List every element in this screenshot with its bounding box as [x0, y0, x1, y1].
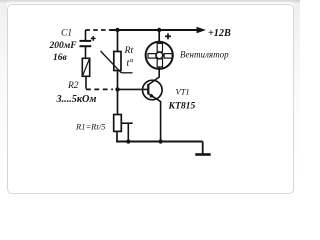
svg-text:C1: C1: [61, 29, 72, 39]
svg-text:Rt: Rt: [124, 45, 134, 56]
svg-text:+12В: +12В: [208, 28, 231, 39]
svg-text:КТ815: КТ815: [168, 101, 196, 112]
svg-text:Вентилятор: Вентилятор: [180, 49, 229, 59]
svg-text:R1=Rt/5: R1=Rt/5: [75, 121, 105, 131]
svg-text:16в: 16в: [53, 53, 68, 63]
svg-text:R2: R2: [67, 81, 79, 91]
svg-text:200мF: 200мF: [49, 41, 78, 51]
svg-text:VT1: VT1: [176, 86, 190, 96]
svg-text:t°: t°: [127, 58, 134, 69]
svg-text:3....5кОм: 3....5кОм: [56, 94, 97, 105]
